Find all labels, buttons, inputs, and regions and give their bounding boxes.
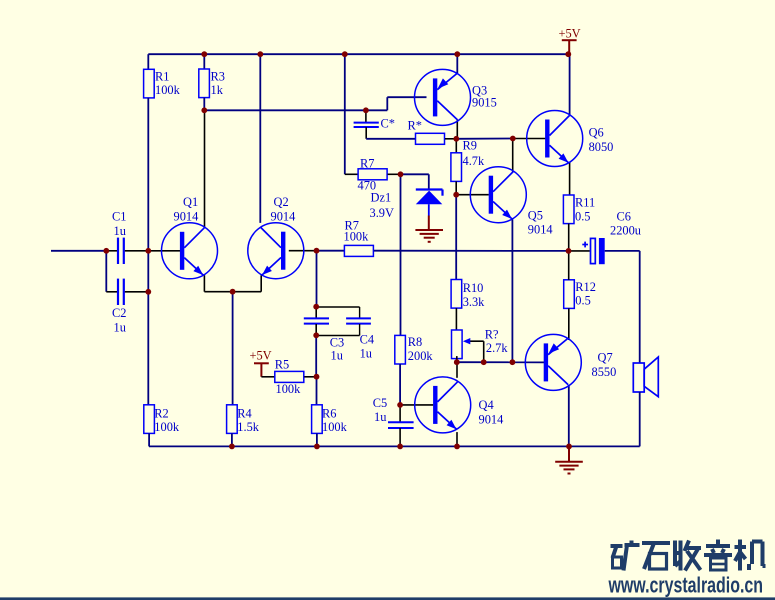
svg-text:R4: R4 <box>237 407 251 421</box>
svg-text:R9: R9 <box>463 139 477 153</box>
svg-text:R1: R1 <box>155 70 169 84</box>
svg-text:100k: 100k <box>322 420 348 434</box>
svg-text:3.3k: 3.3k <box>463 295 485 309</box>
svg-text:Dz1: Dz1 <box>371 191 392 205</box>
svg-text:1u: 1u <box>331 349 343 363</box>
svg-text:9014: 9014 <box>174 210 199 224</box>
svg-text:+5V: +5V <box>559 26 581 40</box>
svg-text:Q4: Q4 <box>479 398 494 412</box>
svg-text:1u: 1u <box>360 347 372 361</box>
svg-text:1.5k: 1.5k <box>237 420 259 434</box>
svg-text:R11: R11 <box>575 196 595 210</box>
svg-text:Q6: Q6 <box>589 126 604 140</box>
svg-text:C5: C5 <box>373 396 387 410</box>
svg-text:C6: C6 <box>617 210 631 224</box>
svg-text:1k: 1k <box>211 83 224 97</box>
svg-text:C*: C* <box>381 117 395 131</box>
svg-text:9015: 9015 <box>472 96 497 110</box>
svg-text:Q1: Q1 <box>183 195 198 209</box>
svg-text:100k: 100k <box>155 83 181 97</box>
svg-text:8050: 8050 <box>589 140 614 154</box>
svg-text:9014: 9014 <box>528 223 553 237</box>
svg-text:2.7k: 2.7k <box>486 341 508 355</box>
svg-text:R7: R7 <box>360 157 374 171</box>
svg-text:R2: R2 <box>154 407 168 421</box>
svg-text:9014: 9014 <box>271 210 296 224</box>
svg-text:R12: R12 <box>575 280 596 294</box>
svg-text:100k: 100k <box>344 230 370 244</box>
svg-text:0.5: 0.5 <box>575 210 591 224</box>
svg-text:9014: 9014 <box>479 413 504 427</box>
svg-text:0.5: 0.5 <box>575 294 591 308</box>
svg-text:R10: R10 <box>463 281 484 295</box>
svg-text:C2: C2 <box>112 306 126 320</box>
svg-text:200k: 200k <box>408 349 434 363</box>
svg-text:2200u: 2200u <box>610 224 641 238</box>
svg-text:1u: 1u <box>114 321 126 335</box>
svg-text:C1: C1 <box>112 210 126 224</box>
svg-text:100k: 100k <box>154 420 180 434</box>
svg-text:4.7k: 4.7k <box>463 154 485 168</box>
svg-text:R?: R? <box>485 328 499 342</box>
svg-text:1u: 1u <box>114 224 126 238</box>
svg-text:8550: 8550 <box>592 365 617 379</box>
svg-text:100k: 100k <box>276 382 302 396</box>
svg-text:+5V: +5V <box>250 349 272 363</box>
svg-text:www.crystalradio.cn: www.crystalradio.cn <box>608 573 763 598</box>
svg-text:1u: 1u <box>374 410 386 424</box>
svg-text:C4: C4 <box>360 333 374 347</box>
svg-text:C3: C3 <box>330 336 344 350</box>
svg-text:R8: R8 <box>408 335 422 349</box>
svg-text:R6: R6 <box>322 407 336 421</box>
svg-text:Q7: Q7 <box>598 351 613 365</box>
svg-text:3.9V: 3.9V <box>370 206 394 220</box>
svg-text:Q2: Q2 <box>274 195 289 209</box>
svg-text:R5: R5 <box>275 358 289 372</box>
svg-text:R3: R3 <box>211 70 225 84</box>
svg-text:R*: R* <box>408 119 422 133</box>
svg-text:Q5: Q5 <box>528 209 543 223</box>
